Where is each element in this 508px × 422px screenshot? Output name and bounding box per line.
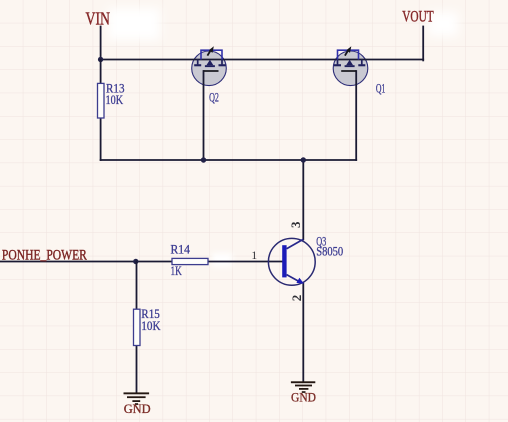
svg-text:S8050: S8050 xyxy=(316,245,343,259)
ground symbol right xyxy=(291,381,315,393)
svg-text:3: 3 xyxy=(288,221,303,228)
wire R14 to Q3 base xyxy=(208,261,282,263)
wire R13 top xyxy=(100,60,102,84)
node junction VIN/R13 xyxy=(98,57,103,62)
svg-text:1K: 1K xyxy=(171,264,183,278)
transistor Q2 symbol details xyxy=(194,46,225,71)
wire R13 bottom xyxy=(100,118,102,160)
svg-text:PONHE_POWER: PONHE_POWER xyxy=(2,248,87,264)
transistor Q1 symbol details (mirrored) xyxy=(334,46,365,71)
wire VIN vertical xyxy=(100,27,102,60)
resistor R13 xyxy=(98,83,105,118)
svg-text:Q2: Q2 xyxy=(209,91,219,105)
svg-text:1: 1 xyxy=(251,250,257,262)
wire Q2 gate lead xyxy=(203,71,205,160)
wire R15 bottom to GND xyxy=(136,346,138,393)
svg-text:GND: GND xyxy=(124,402,151,416)
wire Q3 emitter to GND xyxy=(302,284,304,382)
wire PONHE_POWER horizontal xyxy=(0,261,172,263)
wire top rail xyxy=(101,59,424,61)
svg-text:10K: 10K xyxy=(106,93,124,107)
wire Q3 collector vertical xyxy=(302,160,304,239)
svg-text:GND: GND xyxy=(291,391,316,405)
node junction collector / bottom rail xyxy=(301,157,306,162)
svg-text:VOUT: VOUT xyxy=(402,8,434,25)
wire Q1 gate lead xyxy=(355,71,357,160)
node junction Q2 gate / bottom rail xyxy=(201,157,206,162)
wire R15 top xyxy=(136,262,138,310)
transistor Q2 (PMOS) circle body xyxy=(192,51,227,86)
svg-text:R14: R14 xyxy=(171,243,191,257)
wire bottom rail xyxy=(101,159,357,161)
white halo near VOUT xyxy=(428,12,458,36)
svg-text:VIN: VIN xyxy=(86,8,111,28)
ground symbol left xyxy=(124,392,150,405)
svg-text:2: 2 xyxy=(289,295,304,302)
wire VOUT vertical xyxy=(422,27,424,61)
white halo right of R14 xyxy=(212,253,232,267)
resistor R14 xyxy=(172,258,208,264)
resistor R15 xyxy=(134,309,141,345)
transistor Q1 (PMOS) circle body xyxy=(333,51,368,86)
svg-text:Q1: Q1 xyxy=(376,81,386,95)
svg-text:10K: 10K xyxy=(141,319,161,333)
white halo right of VIN xyxy=(108,8,160,40)
node junction PONHE/R15 xyxy=(133,259,138,264)
transistor Q3 (NPN S8050) xyxy=(268,238,315,285)
